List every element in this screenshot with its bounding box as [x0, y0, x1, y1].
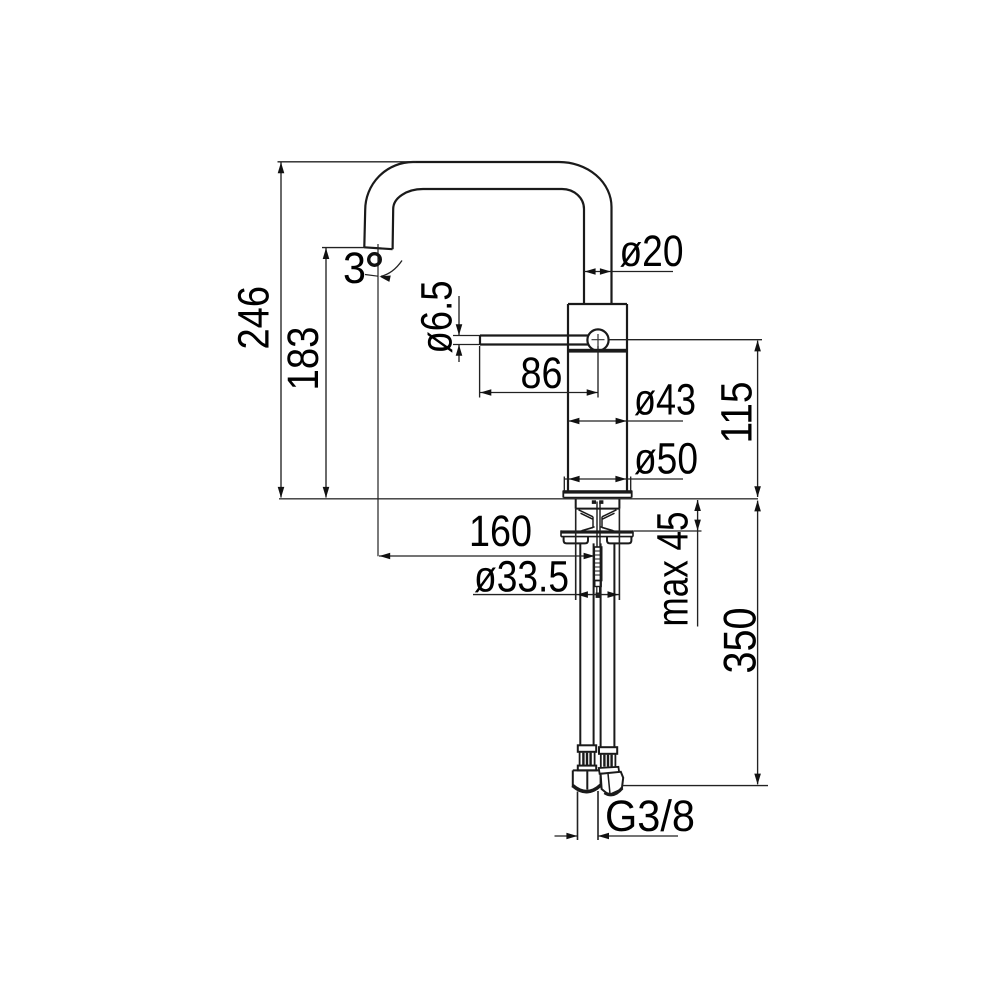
dimension o50	[564, 478, 683, 480]
body separation band	[568, 349, 627, 353]
svg-text:86: 86	[521, 349, 563, 398]
extension line plate top right (max 45)	[634, 530, 702, 532]
svg-text:ø6.5: ø6.5	[413, 281, 462, 354]
svg-text:183: 183	[279, 327, 328, 391]
extension lines lever edges (o6.5)	[453, 336, 480, 345]
svg-text:3: 3	[343, 244, 366, 293]
right elbow band	[599, 767, 619, 774]
shank stud nuts	[592, 500, 596, 504]
dimension o43	[568, 420, 683, 422]
left hose crimp collar	[578, 745, 596, 752]
handle lever bar	[480, 336, 590, 345]
threaded rod long nut	[594, 547, 601, 581]
svg-text:max 45: max 45	[649, 512, 698, 627]
left hex nut G3/8	[573, 770, 601, 789]
dimension o20	[584, 271, 673, 273]
extension line pivot axis right (115)	[609, 339, 762, 341]
angle 3 deg arc arrow	[381, 261, 402, 277]
svg-text:160: 160	[469, 507, 532, 556]
extension lines flange (o50)	[564, 477, 630, 492]
supply hose left	[580, 543, 593, 745]
threaded shank below deck	[576, 499, 620, 509]
extension lines shank (o33.5)	[576, 509, 620, 600]
base flange top band	[563, 490, 632, 493]
svg-text:115: 115	[713, 382, 762, 444]
spout outlet tip	[364, 247, 392, 249]
svg-text:ø43: ø43	[634, 376, 696, 425]
base flange body	[563, 491, 631, 498]
dimension 160	[379, 555, 595, 557]
deck / countertop line	[279, 498, 758, 500]
extension lines thread (G3/8)	[578, 791, 599, 840]
dimension G3/8	[555, 835, 679, 837]
mounting foot right	[607, 537, 631, 544]
central threaded rod	[597, 502, 600, 547]
svg-text:ø20: ø20	[620, 227, 684, 276]
dimension o33.5	[473, 594, 619, 596]
right hose ribbed section	[601, 754, 616, 767]
dimension 246 vertical	[280, 163, 282, 498]
left hose ribbed section	[580, 752, 595, 766]
mounting plate	[561, 530, 633, 533]
mounting foot left	[564, 537, 588, 544]
extension line spout outlet (183)	[322, 247, 365, 249]
dimension 115 vertical	[757, 341, 759, 497]
svg-text:G3/8: G3/8	[605, 792, 695, 841]
clamping cone left	[579, 510, 595, 532]
supply hose right	[601, 543, 615, 747]
pivot centerline cross	[592, 334, 605, 346]
extension line lever end (86)	[479, 346, 481, 398]
dimension o6.5 arrows	[458, 296, 460, 362]
right elbow hex nut	[601, 772, 624, 795]
spout outlet centerline	[377, 244, 379, 556]
clamping cone right	[600, 510, 616, 532]
faucet body column	[568, 304, 627, 491]
extension line pivot center (86)	[597, 346, 599, 398]
rod lower stub	[595, 581, 601, 587]
faucet spout outer profile	[364, 162, 611, 304]
leader line max 45	[697, 531, 699, 627]
svg-text:246: 246	[230, 286, 279, 350]
svg-text:ø50: ø50	[634, 435, 698, 484]
svg-text:ø33.5: ø33.5	[474, 553, 569, 602]
extension line hose end bottom (350)	[622, 785, 768, 787]
dimension 350 vertical	[757, 501, 759, 785]
pivot ball joint	[587, 329, 608, 350]
dimension max 45 vertical	[697, 500, 699, 531]
extension line top of spout (246)	[278, 161, 417, 163]
right hose crimp collar	[599, 747, 617, 754]
dimension 183 vertical	[325, 248, 327, 498]
faucet spout inner profile	[393, 189, 584, 304]
dimension 86	[480, 392, 598, 394]
svg-text:350: 350	[714, 608, 766, 674]
